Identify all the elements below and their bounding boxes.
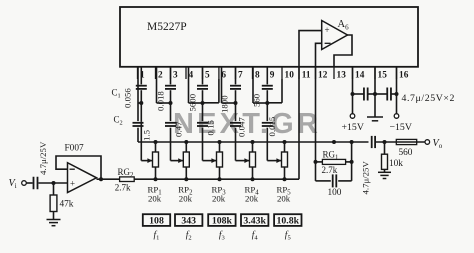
- svg-text:2.7k: 2.7k: [115, 183, 131, 193]
- svg-text:20k: 20k: [179, 193, 193, 203]
- svg-text:5600: 5600: [188, 93, 198, 111]
- svg-text:2.7k: 2.7k: [322, 165, 338, 175]
- svg-text:0.047: 0.047: [237, 117, 247, 137]
- svg-text:M5227P: M5227P: [147, 21, 187, 33]
- svg-text:+: +: [70, 178, 75, 188]
- svg-text:12: 12: [318, 70, 328, 80]
- svg-text:F007: F007: [65, 144, 84, 154]
- svg-text:0.018: 0.018: [156, 91, 166, 111]
- svg-text:2: 2: [158, 70, 163, 80]
- svg-text:4.7μ/25V×2: 4.7μ/25V×2: [402, 93, 456, 104]
- svg-text:0.15: 0.15: [206, 120, 216, 136]
- svg-text:5: 5: [205, 70, 210, 80]
- svg-text:4.7μ/25V: 4.7μ/25V: [361, 161, 371, 195]
- svg-text:100: 100: [328, 188, 342, 198]
- svg-text:3: 3: [173, 70, 178, 80]
- svg-text:+15V: +15V: [342, 122, 364, 133]
- svg-text:0.47: 0.47: [174, 121, 184, 137]
- svg-text:10: 10: [285, 70, 295, 80]
- svg-text:1.5: 1.5: [142, 129, 152, 141]
- svg-text:3.43k: 3.43k: [243, 215, 266, 226]
- svg-text:20k: 20k: [148, 193, 162, 203]
- svg-text:10.8k: 10.8k: [277, 215, 300, 226]
- svg-text:10k: 10k: [389, 159, 403, 169]
- svg-text:16: 16: [399, 70, 409, 80]
- svg-text:14: 14: [355, 70, 365, 80]
- svg-text:560: 560: [399, 148, 413, 158]
- svg-text:+: +: [324, 25, 329, 35]
- svg-text:9: 9: [270, 70, 275, 80]
- svg-text:560: 560: [252, 93, 262, 107]
- svg-text:0.015: 0.015: [267, 116, 277, 136]
- svg-text:108k: 108k: [212, 215, 233, 226]
- svg-text:7: 7: [238, 70, 243, 80]
- svg-text:20k: 20k: [212, 193, 226, 203]
- svg-text:8: 8: [255, 70, 260, 80]
- svg-text:15: 15: [378, 70, 388, 80]
- svg-text:−15V: −15V: [390, 122, 412, 133]
- svg-text:1800: 1800: [220, 95, 230, 113]
- svg-text:13: 13: [337, 70, 347, 80]
- svg-text:4.7μ/25V: 4.7μ/25V: [38, 141, 48, 175]
- svg-text:0.056: 0.056: [123, 88, 133, 108]
- svg-text:20k: 20k: [245, 193, 259, 203]
- svg-text:20k: 20k: [277, 193, 291, 203]
- svg-text:47k: 47k: [60, 200, 74, 210]
- svg-text:11: 11: [302, 70, 311, 80]
- svg-text:343: 343: [181, 215, 196, 226]
- svg-text:108: 108: [149, 215, 164, 226]
